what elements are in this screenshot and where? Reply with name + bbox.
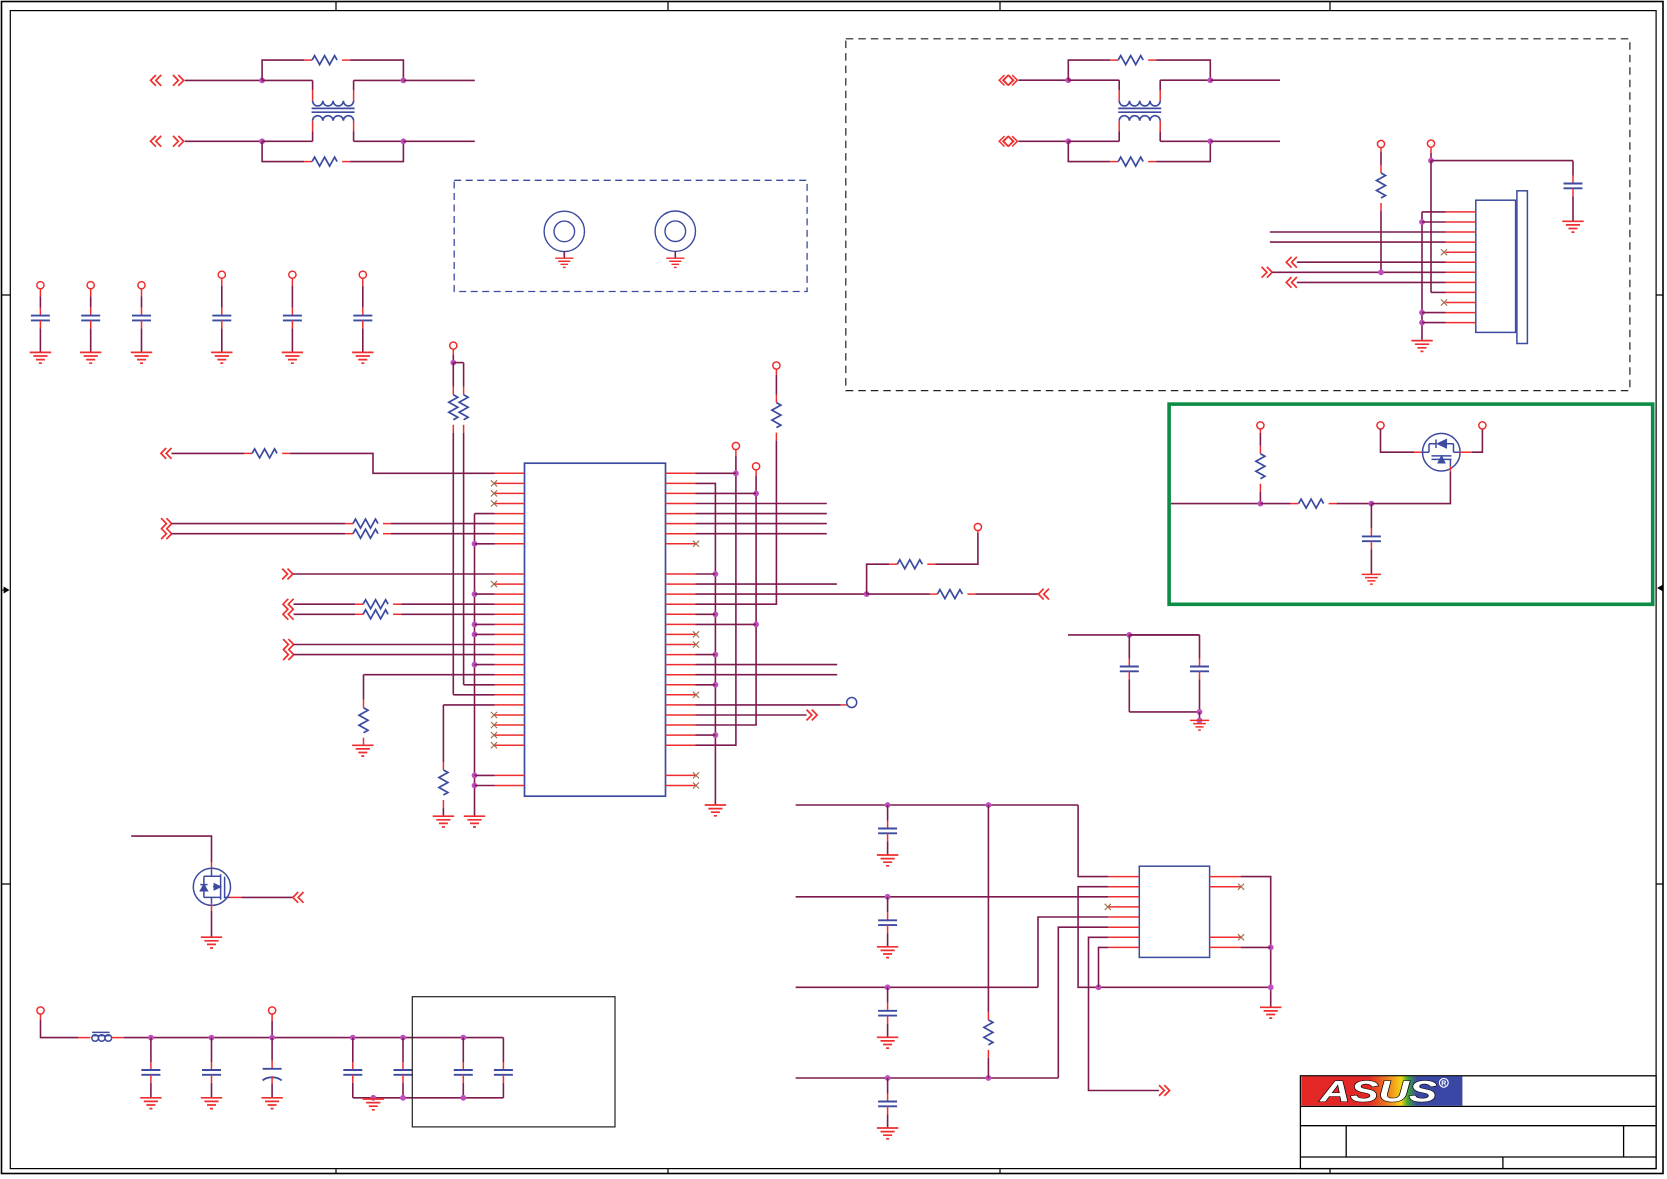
IC U1 body (525, 463, 666, 796)
wire (294, 603, 356, 605)
resistor R13 (449, 387, 458, 433)
resistor R4 (1110, 157, 1156, 166)
green highlight box (1169, 404, 1653, 604)
junction (713, 611, 719, 617)
U1 right pin row 10 (666, 573, 696, 575)
capacitor C15 (394, 1062, 413, 1083)
U1 left pin row 2 (495, 492, 525, 494)
border zone ticks bottom (336, 1169, 1330, 1174)
U1 right pin row 18 (666, 654, 696, 656)
wire (696, 674, 838, 676)
wire to Q2 drain (1371, 471, 1450, 503)
wire (1431, 291, 1446, 293)
transformer T2 (1118, 90, 1161, 132)
power terminal (450, 342, 457, 349)
ground (433, 816, 454, 827)
port arrow right (1262, 267, 1273, 278)
ground (1362, 574, 1381, 584)
U1 left pin row 5 (495, 523, 525, 525)
wire (291, 278, 293, 285)
U1 right pin row 13 (666, 603, 696, 605)
resistor R16 (439, 762, 448, 808)
wire (221, 286, 223, 308)
wire (90, 289, 92, 296)
wire (796, 986, 1038, 988)
wire (403, 79, 474, 81)
no-connect (491, 581, 497, 587)
wire (452, 433, 454, 695)
wire (1431, 160, 1573, 162)
wire (1118, 132, 1120, 142)
junction (1268, 984, 1274, 990)
U2 left pin 4 (1108, 906, 1139, 908)
no-connect (1441, 299, 1447, 305)
port arrow left (1038, 589, 1049, 600)
connector J3 pin 5 (1446, 251, 1476, 253)
pin stub (841, 704, 847, 706)
no-connect (693, 772, 699, 778)
U2 right pin 3 (1210, 936, 1241, 938)
wire (696, 654, 716, 656)
border zone ticks left (2, 295, 11, 884)
resistor R3 (1110, 56, 1156, 65)
wire (1572, 161, 1574, 176)
resistor R12 (355, 610, 401, 619)
U1 right pin row 1 (666, 482, 696, 484)
wire (1241, 946, 1271, 948)
junction (986, 802, 992, 808)
U1 left pin row 15 (495, 623, 525, 625)
wire (1128, 635, 1130, 659)
ground (877, 947, 898, 958)
wire (221, 328, 223, 352)
U1 left pin row 23 (495, 704, 525, 706)
wire (150, 1083, 152, 1098)
jack J1 (544, 211, 584, 251)
wire (1430, 153, 1432, 161)
port arrow right (173, 136, 184, 147)
wire (90, 296, 92, 307)
svg-text:ASUS: ASUS (1319, 1076, 1437, 1109)
wire (211, 911, 213, 937)
U1 left pin row 30 (495, 774, 525, 776)
wire (1199, 635, 1201, 659)
ground (80, 352, 101, 363)
wire (453, 694, 494, 696)
U1 left pin row 6 (495, 533, 525, 535)
wire (353, 1097, 504, 1099)
power terminal (974, 523, 981, 530)
wire (1422, 221, 1446, 223)
pin stub (1460, 451, 1472, 453)
junction (885, 984, 891, 990)
wire (141, 296, 143, 307)
port LAN2 bidirectional diamond (999, 136, 1017, 146)
title block frame (1300, 1076, 1656, 1169)
no-connect (491, 722, 497, 728)
wire (887, 933, 889, 947)
wire (696, 513, 827, 515)
junction (401, 138, 407, 144)
ground (705, 805, 726, 816)
U1 left pin row 21 (495, 684, 525, 686)
wire U2 pin 7 to port (1089, 937, 1160, 1090)
capacitor C18 (878, 821, 897, 842)
component outline box (412, 997, 615, 1127)
U1 right pin row 23 (666, 704, 696, 706)
connector J3 pin 11 (1446, 312, 1476, 314)
connector J3 pin 12 (1446, 322, 1476, 324)
wire (796, 1077, 1059, 1079)
resistor R19 (889, 560, 935, 569)
resistor R14 (459, 387, 468, 433)
wire (452, 363, 454, 387)
ground (555, 258, 573, 267)
junction (1207, 77, 1213, 83)
wire (1430, 161, 1432, 293)
wire (291, 328, 293, 352)
wire (39, 328, 41, 352)
power terminal VCC C6 (359, 271, 366, 278)
power terminal (1427, 140, 1434, 147)
no-connect (1238, 934, 1244, 940)
wire (262, 140, 313, 142)
wire (887, 987, 889, 1003)
wire to R1 (262, 60, 304, 80)
wire (1018, 140, 1068, 142)
wire (141, 328, 143, 352)
junction (733, 470, 739, 476)
wire (402, 1083, 404, 1098)
junction (1096, 984, 1102, 990)
junction (1207, 138, 1213, 144)
ground (261, 1098, 282, 1109)
ground (282, 352, 303, 363)
power terminal (1479, 422, 1486, 429)
capacitor C11 (141, 1062, 160, 1083)
wire (887, 1024, 889, 1038)
no-connect (491, 712, 497, 718)
wire from R2 (350, 141, 403, 161)
capacitor C12 (202, 1062, 221, 1083)
no-connect (693, 541, 699, 547)
wire to U2 pin 1 (1078, 805, 1108, 877)
wire gnd net vertical (1421, 212, 1423, 341)
U1 right pin row 2 (666, 492, 696, 494)
wire (1199, 712, 1201, 721)
wire (1018, 79, 1068, 81)
no-connect (491, 732, 497, 738)
wire U2 pin 2 net (1078, 887, 1271, 988)
wire (987, 1058, 989, 1078)
no-connect (693, 641, 699, 647)
wire (887, 841, 889, 855)
U2 left pin 7 (1108, 936, 1139, 938)
U1 right pin row 11 (666, 583, 696, 585)
pin stub (452, 349, 454, 355)
border zone ticks right (1656, 295, 1663, 884)
U1 left pin row 16 (495, 633, 525, 635)
wire (90, 328, 92, 352)
capacitor C8 (1362, 528, 1381, 549)
wire (975, 593, 1038, 595)
connector J3 pin 10 (1446, 302, 1476, 304)
U1 left pin row 3 (495, 503, 525, 505)
wire (363, 675, 365, 700)
transistor Q2 P-MOSFET (1423, 433, 1461, 471)
junction (350, 1035, 356, 1041)
border mid arrow left (2, 587, 9, 592)
dashed box audio jacks (454, 180, 807, 291)
wire (775, 375, 777, 395)
wire (1572, 196, 1574, 221)
U1 left pin row 27 (495, 744, 525, 746)
junction (1126, 632, 1132, 638)
wire (353, 132, 355, 142)
U1 left pin row 10 (495, 573, 525, 575)
wire (796, 804, 1079, 806)
wire (475, 774, 495, 776)
U1 right pin row 25 (666, 724, 696, 726)
wire (211, 1038, 213, 1062)
U1 left pin row 20 (495, 674, 525, 676)
no-connect (1441, 249, 1447, 255)
wire (185, 79, 262, 81)
wire (124, 1037, 503, 1039)
wire v2 (696, 456, 736, 745)
wire (696, 623, 757, 625)
wire (362, 328, 364, 352)
wire from R1 (350, 60, 403, 80)
junction (1428, 158, 1434, 164)
connector J3 pin 7 (1446, 271, 1476, 273)
U1 left pin row 24 (495, 714, 525, 716)
wire (41, 1020, 79, 1038)
wire (987, 805, 989, 1012)
wire (1171, 503, 1260, 505)
power terminal (753, 463, 760, 470)
resistor R10 (345, 529, 391, 538)
dashed box LAN section (846, 39, 1630, 391)
U1 right pin row 17 (666, 644, 696, 646)
pin stub (1449, 466, 1451, 471)
wire (887, 805, 889, 821)
junction (472, 773, 478, 779)
transistor Q1 N-MOSFET (193, 868, 230, 905)
wire from Q2 drain (1472, 429, 1482, 452)
wire (887, 897, 889, 913)
wire U1 pin O (364, 674, 495, 676)
wire (1380, 152, 1382, 165)
wire (391, 533, 495, 535)
U1 left pin row 13 (495, 603, 525, 605)
ground (363, 1099, 384, 1110)
ferrite bead FB1 (92, 1032, 112, 1041)
wire (696, 613, 716, 615)
junction (1065, 77, 1071, 83)
capacitor C16 (454, 1062, 473, 1083)
junction (885, 1075, 891, 1081)
ground (211, 352, 232, 363)
junction (1419, 219, 1425, 225)
wire (294, 644, 495, 646)
ASUS logo (1301, 1076, 1462, 1109)
power terminal (732, 442, 739, 449)
wire (696, 714, 807, 716)
ground (201, 937, 222, 948)
U1 right pin row 24 (666, 714, 696, 716)
ground (1562, 221, 1583, 232)
wire (1422, 312, 1446, 314)
port LAN1 bidirectional diamond (999, 75, 1017, 85)
junction (472, 783, 478, 789)
capacitor C6 (353, 308, 372, 329)
wire (475, 785, 495, 787)
U1 left pin row 17 (495, 644, 525, 646)
wire (1380, 211, 1382, 272)
U1 left pin row 14 (495, 613, 525, 615)
wire to R2 (262, 141, 304, 161)
no-connect (491, 500, 497, 506)
wire (401, 603, 494, 605)
net circle (847, 698, 857, 708)
no-connect (693, 631, 699, 637)
junction (713, 571, 719, 577)
wire (696, 664, 838, 666)
wire (1199, 679, 1201, 712)
wire (563, 252, 565, 259)
connector J3 pin 1 (1446, 211, 1476, 213)
pin stub (1414, 451, 1423, 453)
wire (362, 286, 364, 308)
wire (696, 472, 736, 474)
pin stub (40, 1014, 42, 1020)
power terminal (1377, 422, 1384, 429)
U1 right pin row 16 (666, 633, 696, 635)
wire (271, 1038, 273, 1061)
wire (696, 704, 841, 706)
transformer T1 windings (312, 90, 355, 132)
wire (475, 623, 495, 625)
junction (472, 632, 478, 638)
ground (464, 816, 485, 827)
pin stub (112, 1037, 124, 1039)
wire (262, 79, 313, 81)
resistor R1 (304, 56, 350, 65)
ground (877, 855, 898, 866)
U1 left pin row 1 (495, 482, 525, 484)
wire (1270, 241, 1446, 243)
port arrow right (161, 528, 172, 539)
U1 left pin row 25 (495, 724, 525, 726)
wire (1337, 503, 1372, 505)
IC U2 body (1139, 866, 1209, 957)
pin stub (1259, 429, 1261, 433)
wire (403, 140, 474, 142)
wire (696, 573, 716, 575)
ground (201, 1098, 222, 1109)
wire (696, 523, 827, 525)
ground (1190, 720, 1209, 730)
wire to R19 (867, 564, 890, 594)
polarized capacitor C13 (263, 1061, 282, 1084)
wire (271, 1021, 273, 1038)
junction (209, 1035, 215, 1041)
pin stub (735, 450, 737, 456)
connector J3 pin 6 (1446, 261, 1476, 263)
connector J3 pin 9 (1446, 291, 1476, 293)
U1 right pin row 6 (666, 533, 696, 535)
wire (211, 1083, 213, 1098)
resistor R9 (345, 519, 391, 528)
junction (370, 1095, 376, 1101)
U2 left pin 1 (1108, 876, 1139, 878)
wire (1159, 132, 1161, 142)
wire (391, 523, 495, 525)
junction (1197, 718, 1203, 724)
U2 right pin 1 (1210, 876, 1241, 878)
pin stub (775, 369, 777, 375)
U1 right pin row 19 (666, 664, 696, 666)
wire (462, 1038, 464, 1062)
U1 left pin row 22 (495, 694, 525, 696)
port arrow left (283, 609, 294, 620)
wire (696, 583, 837, 585)
resistor R18 (929, 590, 975, 599)
wire (696, 492, 757, 494)
junction (472, 622, 478, 628)
wire (1297, 261, 1446, 263)
wire (362, 278, 364, 285)
wire (1260, 503, 1290, 505)
wire (1068, 79, 1119, 81)
capacitor C7 (1564, 176, 1583, 197)
junction (148, 1035, 154, 1041)
ground (352, 352, 373, 363)
U1 right pin row 0 (666, 472, 696, 474)
wire U2 gnd net (1241, 877, 1271, 1008)
wire U2 pin 8 (1099, 947, 1109, 987)
ground (877, 1128, 898, 1139)
resistor R5 (1377, 165, 1386, 211)
junction (986, 1075, 992, 1081)
U1 left pin row 11 (495, 583, 525, 585)
U2 left pin 6 (1108, 926, 1139, 928)
junction (472, 662, 478, 668)
junction (1197, 709, 1203, 715)
wire (462, 1083, 464, 1098)
no-connect (491, 490, 497, 496)
pin stub (271, 1014, 273, 1021)
no-connect (693, 692, 699, 698)
ground (1260, 1007, 1281, 1018)
wire (475, 633, 495, 635)
wire (696, 684, 716, 686)
wire from R19 (935, 533, 978, 564)
connector J3 body (1476, 191, 1528, 344)
wire (1159, 80, 1161, 90)
resistor R6 (1256, 446, 1265, 492)
wire (867, 593, 930, 595)
U2 left pin 3 (1108, 896, 1139, 898)
wire to R4 (1068, 141, 1110, 161)
power terminal (1377, 140, 1384, 147)
wire to U2 pin 6 (1058, 927, 1108, 1078)
junction (400, 1035, 406, 1041)
wire (1118, 80, 1120, 90)
wire (696, 734, 716, 736)
wire (172, 533, 345, 535)
